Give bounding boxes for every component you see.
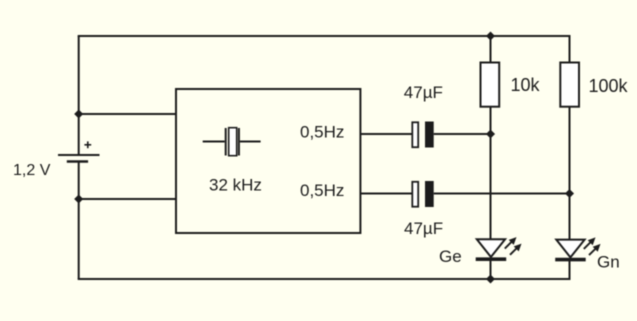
wire node A to LED1 bbox=[490, 134, 492, 240]
node top rail R1 junction bbox=[486, 31, 495, 40]
svg-text:10k: 10k bbox=[511, 75, 541, 95]
wire R2 to node B bbox=[569, 107, 571, 194]
wire box output 2 to C2 bbox=[360, 193, 411, 195]
node B junction bbox=[565, 189, 574, 198]
wire left rail upper bbox=[78, 36, 80, 155]
svg-text:47µF: 47µF bbox=[404, 83, 443, 102]
node A junction bbox=[486, 129, 495, 138]
crystal X1 bbox=[203, 128, 261, 156]
LED D2 Gn bbox=[555, 237, 600, 259]
resistor R1 10k bbox=[481, 63, 500, 107]
svg-text:100k: 100k bbox=[589, 76, 629, 96]
wire LED2 cathode to bottom rail bbox=[569, 259, 571, 279]
svg-text:0,5Hz: 0,5Hz bbox=[300, 181, 344, 200]
capacitor C1 bbox=[412, 122, 433, 148]
LED D1 Ge bbox=[476, 237, 522, 259]
svg-text:1,2 V: 1,2 V bbox=[13, 162, 51, 179]
wire top rail to R1 bbox=[490, 36, 492, 63]
battery B1 bbox=[58, 141, 100, 161]
wire left rail lower bbox=[78, 162, 80, 280]
svg-text:32 kHz: 32 kHz bbox=[209, 175, 262, 194]
capacitor C2 bbox=[412, 181, 433, 207]
wire top rail to R2 bbox=[569, 36, 571, 63]
wire LED1 cathode to bottom rail bbox=[490, 259, 492, 279]
wire C2 to node B bbox=[434, 193, 570, 195]
svg-text:Ge: Ge bbox=[439, 247, 462, 266]
svg-text:Gn: Gn bbox=[597, 253, 620, 272]
svg-text:47µF: 47µF bbox=[404, 219, 443, 238]
node battery minus junction bbox=[74, 194, 83, 203]
wire R1 to node A bbox=[490, 107, 492, 134]
wire bottom rail bbox=[78, 278, 571, 280]
resistor R2 100k bbox=[560, 63, 579, 107]
wire C1 to node A bbox=[434, 133, 491, 135]
wire battery minus to box bbox=[79, 198, 176, 200]
oscillator box U1 bbox=[176, 89, 360, 233]
node battery plus junction bbox=[74, 109, 83, 118]
wire box output 1 to C1 bbox=[360, 133, 411, 135]
node bottom rail LED1 junction bbox=[486, 274, 495, 283]
wire battery plus to box bbox=[79, 113, 176, 115]
wire node B to LED2 bbox=[569, 194, 571, 241]
wire top rail bbox=[79, 36, 570, 37]
svg-text:0,5Hz: 0,5Hz bbox=[300, 123, 344, 142]
